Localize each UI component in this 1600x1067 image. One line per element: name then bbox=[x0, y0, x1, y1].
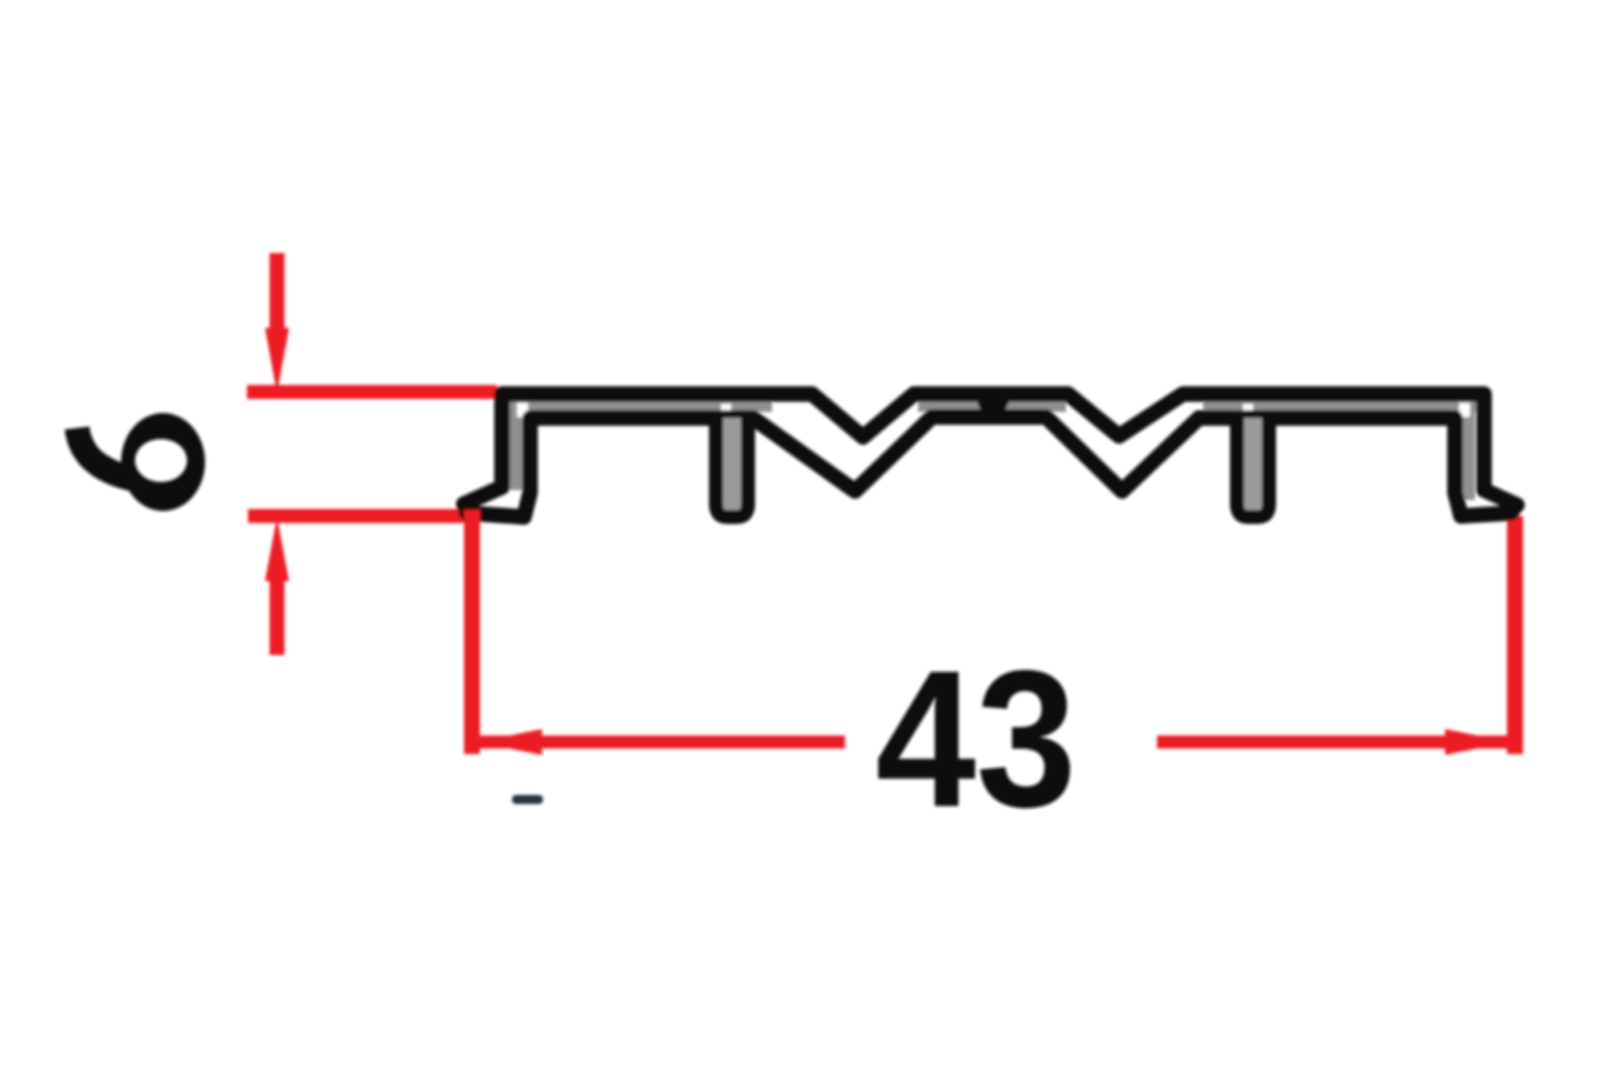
dim6 arrow bottom (points up) bbox=[270, 578, 285, 655]
left foot tip blob bbox=[463, 504, 467, 512]
dim43 arrow left (points left) bbox=[478, 729, 542, 755]
gray wall infill band left flat bbox=[506, 399, 772, 412]
gray wall infill band right flat bbox=[1203, 399, 1481, 412]
white pocket left inner corner bbox=[517, 403, 528, 417]
dim43 dimension line left segment bbox=[473, 736, 845, 749]
label 6 (rotated digit six drawn as path: bowl ring + tail) bbox=[121, 413, 205, 511]
dim43 arrow right (points right) bbox=[1445, 729, 1509, 755]
dim43 dimension line right segment bbox=[1157, 736, 1514, 749]
dim43 extension line left bbox=[464, 510, 480, 754]
white pocket rib 2 top bbox=[1243, 404, 1253, 415]
stray mark bottom left bbox=[512, 795, 543, 804]
junction blob where inner surface touches top at plateau centre bbox=[985, 402, 1001, 414]
rib 2 (T-bar) bbox=[1237, 418, 1269, 517]
gray wall infill left wall bbox=[509, 402, 522, 490]
dim6 extension line bottom bbox=[248, 509, 480, 523]
profile outer contour (top surface, V notches, end walls, feet) bbox=[464, 394, 1517, 505]
profile inner contour (bottom surface line) bbox=[467, 417, 1510, 517]
gray wall infill right wall bbox=[1462, 402, 1475, 500]
gray wall infill band plateau bbox=[918, 399, 1066, 412]
dim43 extension line right bbox=[1507, 516, 1523, 754]
dim6 extension line top bbox=[247, 385, 497, 399]
svg-text:43: 43 bbox=[876, 630, 1077, 848]
dim6 arrow top (points down) bbox=[270, 253, 285, 332]
white pocket rib 1 top bbox=[721, 404, 731, 415]
right foot tip blob bbox=[1512, 505, 1517, 513]
rib 1 (T-bar) bbox=[716, 418, 748, 517]
white pocket right inner corner bbox=[1459, 403, 1470, 417]
